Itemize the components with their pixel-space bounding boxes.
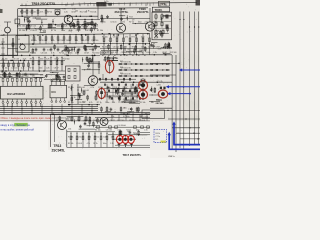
svg-text:R1 10k: R1 10k (30, 53, 36, 55)
svg-text:5 mA 1 kc: 5 mA 1 kc (144, 112, 152, 115)
svg-text:R1 10k: R1 10k (100, 21, 106, 23)
svg-text:2SC945: 2SC945 (156, 102, 165, 105)
svg-text:2.2k: 2.2k (145, 21, 148, 23)
svg-text:R7 1k: R7 1k (59, 53, 64, 55)
svg-text:R12 560: R12 560 (131, 87, 138, 89)
svg-text:0.01: 0.01 (47, 49, 51, 51)
svg-text:4.7k: 4.7k (89, 102, 92, 104)
svg-text:4.7 100n: 4.7 100n (123, 116, 130, 118)
svg-text:47: 47 (26, 76, 28, 78)
svg-text:0.01: 0.01 (158, 48, 162, 50)
svg-text:4.7k: 4.7k (40, 12, 44, 14)
svg-text:C3 0.01: C3 0.01 (11, 68, 17, 70)
svg-text:100: 100 (140, 116, 143, 118)
svg-text:100n: 100n (141, 36, 145, 38)
svg-text:C8 47: C8 47 (71, 12, 76, 14)
svg-text:R7 1k: R7 1k (132, 97, 137, 99)
svg-text:IC2 uPD2816: IC2 uPD2816 (7, 92, 26, 96)
svg-text:C3 0.01: C3 0.01 (41, 40, 47, 42)
svg-text:R1 10k: R1 10k (68, 137, 74, 139)
svg-text:R1 10k: R1 10k (92, 26, 98, 28)
svg-text:C3 0.01: C3 0.01 (76, 143, 82, 145)
svg-text:C3 0.01: C3 0.01 (121, 52, 127, 54)
svg-text:C8 47: C8 47 (54, 68, 59, 70)
svg-text:R7 1k: R7 1k (30, 58, 35, 60)
svg-text:C3 0.01: C3 0.01 (78, 137, 84, 139)
svg-text:вводу в случ "Activate" ре: вводу в случ "Activate" ре (1, 124, 31, 127)
svg-text:TR17 2SC67TL: TR17 2SC67TL (123, 153, 142, 157)
svg-text:C8 47: C8 47 (54, 58, 59, 60)
svg-text:C12 47u R31 1k TP6: C12 47u R31 1k TP6 (52, 118, 72, 120)
svg-text:4.7k: 4.7k (51, 40, 54, 42)
svg-text:0.1: 0.1 (24, 19, 27, 21)
svg-text:R4 1k: R4 1k (156, 133, 161, 135)
svg-text:Обозн. = выводы на плате соотв: Обозн. = выводы на плате соотв. ориг. сх… (1, 117, 53, 120)
svg-text:47: 47 (10, 77, 12, 79)
svg-text:C3 0.01: C3 0.01 (30, 26, 37, 28)
svg-text:R1 10k: R1 10k (19, 30, 25, 32)
svg-text:4.7k: 4.7k (134, 133, 138, 135)
svg-text:R7 1k: R7 1k (51, 30, 56, 32)
svg-text:560: 560 (64, 45, 67, 47)
svg-text:1.5k: 1.5k (111, 116, 114, 118)
svg-text:1k: 1k (84, 123, 86, 125)
svg-text:100n: 100n (103, 137, 107, 139)
svg-text:2.2k: 2.2k (46, 68, 49, 70)
svg-text:4.7k: 4.7k (51, 53, 55, 55)
svg-text:C3 0.01: C3 0.01 (30, 30, 37, 32)
svg-text:15k: 15k (68, 128, 71, 130)
svg-text:R7 1k: R7 1k (48, 26, 53, 28)
svg-text:100n: 100n (146, 52, 150, 54)
svg-text:R7 1k: R7 1k (30, 75, 35, 77)
svg-text:R18: R18 (120, 67, 123, 69)
svg-text:100n: 100n (40, 58, 44, 60)
svg-text:2.2k: 2.2k (114, 87, 117, 89)
svg-text:R12 560: R12 560 (163, 46, 170, 48)
svg-text:2.2k: 2.2k (148, 46, 151, 48)
svg-text:R7 1k: R7 1k (95, 137, 100, 139)
svg-text:1n: 1n (154, 21, 156, 23)
svg-text:15k: 15k (151, 102, 154, 104)
svg-text:100n: 100n (103, 143, 107, 145)
svg-text:100n: 100n (136, 130, 140, 132)
svg-text:22: 22 (123, 107, 125, 109)
svg-text:4.7k: 4.7k (126, 97, 129, 99)
svg-text:2.2k: 2.2k (152, 92, 156, 94)
svg-text:100n: 100n (56, 12, 60, 14)
svg-text:100n: 100n (107, 87, 111, 89)
svg-text:2.2k: 2.2k (128, 109, 132, 111)
svg-text:C8 47: C8 47 (162, 52, 167, 54)
svg-text:TR19 2SC47TSL: TR19 2SC47TSL (32, 2, 56, 6)
svg-text:22: 22 (128, 49, 130, 51)
svg-text:100n: 100n (138, 21, 142, 23)
svg-text:4.7k: 4.7k (87, 143, 90, 145)
svg-text:4.7k: 4.7k (122, 21, 125, 23)
svg-text:C3 0.01: C3 0.01 (79, 87, 85, 89)
svg-text:2.2k: 2.2k (75, 53, 79, 55)
svg-text:4.7k: 4.7k (22, 75, 25, 77)
svg-text:4.7k: 4.7k (125, 36, 128, 38)
svg-text:R1 10k: R1 10k (90, 12, 96, 14)
svg-text:C3 0.01: C3 0.01 (106, 130, 112, 132)
svg-text:R12: R12 (129, 16, 132, 18)
svg-text:R1 10k: R1 10k (97, 30, 103, 32)
svg-text:2.2k: 2.2k (64, 12, 68, 14)
svg-text:R7 1k: R7 1k (132, 46, 137, 48)
svg-text:0.01: 0.01 (85, 90, 89, 92)
svg-text:100n: 100n (87, 69, 91, 71)
svg-text:4.7k: 4.7k (131, 52, 134, 54)
svg-text:C8 47: C8 47 (155, 46, 160, 48)
svg-text:R7 1k: R7 1k (58, 40, 63, 42)
svg-text:2.2k: 2.2k (112, 102, 115, 104)
svg-text:1n: 1n (74, 97, 76, 99)
svg-text:100n: 100n (61, 30, 65, 32)
svg-text:R1 10k: R1 10k (95, 130, 101, 132)
svg-text:R1 10k: R1 10k (102, 46, 108, 48)
svg-text:C3 0.01: C3 0.01 (79, 102, 85, 104)
svg-text:560: 560 (124, 91, 127, 93)
svg-text:C8 47: C8 47 (123, 87, 128, 89)
svg-text:100n: 100n (57, 26, 61, 28)
svg-text:C8 47: C8 47 (76, 30, 81, 32)
svg-text:0.01: 0.01 (154, 37, 158, 39)
svg-text:R12 560: R12 560 (129, 102, 136, 104)
svg-text:1n: 1n (17, 76, 19, 78)
svg-text:в настройке, режим работый: в настройке, режим работый (1, 128, 35, 131)
svg-text:2SC945L: 2SC945L (52, 148, 66, 152)
svg-text:4.7k: 4.7k (156, 31, 160, 33)
svg-text:2.2k: 2.2k (69, 30, 73, 32)
svg-text:R12 560: R12 560 (92, 53, 99, 55)
svg-text:C8 47: C8 47 (72, 26, 77, 28)
svg-text:R1 10k: R1 10k (19, 26, 25, 28)
svg-text:2SC47TSL: 2SC47TSL (115, 10, 129, 14)
svg-text:7.8k: 7.8k (62, 8, 66, 10)
svg-text:TR20: TR20 (155, 8, 163, 12)
svg-text:100n: 100n (66, 40, 70, 42)
svg-text:R12 560: R12 560 (85, 30, 92, 32)
svg-text:R1 10k: R1 10k (2, 58, 8, 60)
svg-text:C3 0.01: C3 0.01 (11, 75, 17, 77)
svg-text:D2: D2 (156, 139, 158, 141)
svg-text:R12 560: R12 560 (80, 12, 87, 14)
svg-text:L10 100uH: L10 100uH (118, 125, 127, 127)
svg-text:R1 10k: R1 10k (68, 87, 74, 89)
svg-text:R1 10k: R1 10k (20, 12, 26, 14)
svg-text:USB 5v: USB 5v (168, 156, 175, 158)
svg-text:R7 1k: R7 1k (129, 21, 134, 23)
svg-text:R1 10k: R1 10k (31, 40, 37, 42)
svg-text:R1 10k: R1 10k (140, 102, 146, 104)
svg-text:R17: R17 (120, 61, 123, 63)
svg-text:R12 560: R12 560 (81, 26, 88, 28)
svg-text:47: 47 (153, 43, 155, 45)
svg-text:R7 1k: R7 1k (93, 143, 98, 145)
svg-text:100n: 100n (141, 46, 145, 48)
svg-text:2.2k: 2.2k (144, 130, 147, 132)
svg-text:2.2k: 2.2k (111, 137, 114, 139)
svg-text:33k: 33k (85, 59, 88, 61)
svg-text:R7 1k: R7 1k (132, 36, 137, 38)
svg-text:4.7k: 4.7k (88, 137, 91, 139)
svg-text:R7 1k: R7 1k (47, 12, 52, 14)
svg-text:R1 10k: R1 10k (68, 143, 74, 145)
svg-text:R7 1k: R7 1k (29, 68, 34, 70)
svg-text:C7 1n: C7 1n (156, 136, 161, 138)
svg-text:C3 0.01: C3 0.01 (41, 53, 48, 55)
svg-text:C3 0.01: C3 0.01 (113, 46, 119, 48)
svg-text:100n: 100n (39, 68, 43, 70)
svg-text:C8 47: C8 47 (82, 40, 87, 42)
svg-text:33k: 33k (20, 76, 23, 78)
svg-text:4.7k: 4.7k (117, 130, 120, 132)
svg-text:560: 560 (89, 49, 92, 51)
svg-text:100n: 100n (40, 75, 44, 77)
svg-text:TP3: TP3 (160, 2, 166, 6)
svg-text:n-33n: n-33n (157, 84, 161, 86)
svg-text:IC3: IC3 (52, 90, 57, 94)
svg-text:R19: R19 (120, 73, 123, 75)
svg-text:2.2k: 2.2k (64, 26, 68, 28)
svg-text:C3 0.01: C3 0.01 (29, 12, 36, 14)
svg-text:C3 0.01: C3 0.01 (110, 21, 116, 23)
svg-text:R1 10k: R1 10k (2, 68, 8, 70)
svg-text:TR16: TR16 (156, 100, 162, 102)
svg-text:1k: 1k (114, 112, 116, 114)
svg-text:TR13: TR13 (54, 144, 62, 148)
svg-text:R1 10k: R1 10k (2, 75, 8, 77)
svg-text:C8 47: C8 47 (121, 102, 126, 104)
svg-text:C3 0.01: C3 0.01 (114, 97, 120, 99)
svg-text:2.2k: 2.2k (75, 40, 78, 42)
svg-text:2SC67TL: 2SC67TL (137, 10, 149, 14)
svg-text:4.7k: 4.7k (42, 30, 46, 32)
svg-text:R12 560: R12 560 (63, 58, 70, 60)
svg-text:100n: 100n (105, 102, 109, 104)
svg-text:C8 47: C8 47 (84, 53, 89, 55)
svg-text:R12 560: R12 560 (170, 52, 177, 54)
svg-text:R7 1k: R7 1k (139, 52, 144, 54)
svg-text:2.2k: 2.2k (110, 143, 113, 145)
svg-text:C3 0.01: C3 0.01 (113, 36, 119, 38)
svg-text:4.7k: 4.7k (124, 46, 127, 48)
svg-text:R1 10k: R1 10k (112, 52, 118, 54)
